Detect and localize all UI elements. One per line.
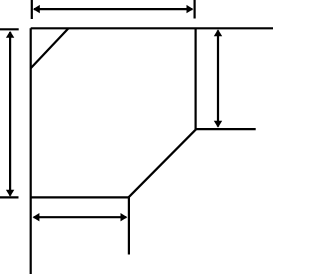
dimension shaft right: [217, 30, 219, 126]
outline bottom horizontal: [31, 196, 129, 198]
arrowhead bottom-left: [33, 213, 40, 221]
witness line top-left: [31, 0, 33, 19]
corner chamfer line: [31, 28, 69, 68]
outline right vertical segment: [195, 28, 197, 129]
dimension shaft bottom: [34, 216, 127, 218]
arrowhead right-down: [214, 121, 222, 128]
arrowhead left-up: [6, 31, 14, 38]
outline 45-degree diagonal: [129, 129, 196, 197]
witness line top-right: [194, 0, 196, 19]
dimension shaft left: [9, 32, 11, 196]
dimension shaft top: [34, 8, 192, 10]
outline left edge: [30, 28, 32, 274]
witness line left-upper: [0, 28, 19, 30]
witness line left-lower: [0, 196, 19, 198]
outline middle vertical stub: [128, 197, 130, 254]
arrowhead top-right: [187, 5, 194, 13]
arrowhead bottom-right: [121, 213, 128, 221]
outline ledge horizontal: [196, 128, 256, 130]
outline top edge: [31, 27, 273, 29]
arrowhead right-up: [214, 29, 222, 36]
arrowhead top-left: [33, 5, 40, 13]
arrowhead left-down: [6, 190, 14, 197]
